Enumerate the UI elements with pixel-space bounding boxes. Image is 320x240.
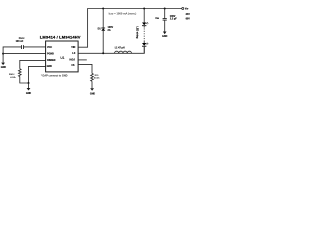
ground GND4 CIN bbox=[162, 32, 168, 39]
wire DIM/EN to RIADJ bbox=[20, 60, 46, 68]
wire D1 anode to LX wire bbox=[102, 31, 104, 54]
svg-text:4.02k: 4.02k bbox=[10, 76, 16, 79]
capacitor CIN bbox=[155, 15, 177, 21]
node D1 top bbox=[102, 8, 104, 10]
svg-text:PGND: PGND bbox=[47, 52, 54, 55]
inductor L1 bbox=[115, 46, 132, 53]
svg-text:CIN: CIN bbox=[155, 17, 159, 20]
node GND junction bbox=[28, 82, 30, 84]
svg-text:100 nF: 100 nF bbox=[16, 40, 24, 43]
wire LED string dashed continuation bbox=[143, 26, 145, 28]
wire RIADJ bottom to GND node bbox=[20, 77, 29, 84]
wire LX pin to inductor and LED return bbox=[78, 47, 144, 53]
svg-text:ILED = 1000 mA (nom.): ILED = 1000 mA (nom.) bbox=[109, 12, 137, 16]
diode D1 bbox=[98, 26, 114, 32]
ground GND2 bbox=[26, 83, 32, 95]
wire CVCC cap to left rail bbox=[3, 47, 21, 63]
wire D1 cathode to top rail bbox=[102, 9, 104, 28]
svg-text:VCC: VCC bbox=[47, 46, 52, 49]
resistor RFS bbox=[91, 73, 101, 81]
wire PGND pin bbox=[3, 53, 46, 55]
terminal VIN input bbox=[182, 8, 184, 10]
node LED string top bbox=[143, 8, 145, 10]
wire IADJ stub bbox=[78, 59, 87, 61]
svg-text:GND: GND bbox=[1, 66, 7, 69]
svg-text:* DAP connect to GND: * DAP connect to GND bbox=[41, 75, 68, 78]
svg-text:GND: GND bbox=[162, 35, 168, 38]
node CIN top bbox=[164, 8, 166, 10]
svg-text:LED string: LED string bbox=[136, 26, 139, 39]
LED D2 bbox=[142, 22, 148, 26]
svg-text:LX: LX bbox=[72, 52, 75, 55]
svg-text:RFS: RFS bbox=[95, 75, 100, 77]
LED string top wire bbox=[143, 9, 145, 23]
svg-text:DIM/EN: DIM/EN bbox=[47, 59, 56, 62]
wire VIN pin riser to top rail bbox=[78, 9, 182, 48]
svg-text:IADJ: IADJ bbox=[69, 58, 75, 61]
wire CIN top bbox=[164, 9, 166, 19]
svg-text:U1: U1 bbox=[60, 56, 64, 60]
svg-text:24V: 24V bbox=[186, 13, 191, 16]
ground GND1 bbox=[1, 63, 7, 70]
capacitor CVCC bbox=[22, 45, 24, 49]
wire FS pin to RFS bbox=[78, 64, 92, 73]
wire CIN bottom bbox=[164, 20, 166, 32]
svg-text:GND: GND bbox=[26, 92, 32, 95]
LED D3 bbox=[142, 43, 148, 47]
svg-text:40.2k: 40.2k bbox=[94, 77, 100, 80]
wire RFS to ground bbox=[91, 81, 93, 88]
node D1 bottom junction bbox=[102, 52, 104, 54]
wire LED cathode to corner bbox=[143, 46, 145, 53]
svg-text:LM3414 / LM3414HV: LM3414 / LM3414HV bbox=[40, 35, 81, 40]
svg-text:60V: 60V bbox=[186, 17, 191, 20]
svg-text:GND: GND bbox=[90, 92, 96, 95]
svg-text:FS: FS bbox=[71, 64, 74, 67]
svg-text:RIADJ: RIADJ bbox=[9, 73, 14, 76]
svg-text:2.2 µF: 2.2 µF bbox=[170, 18, 177, 21]
svg-text:L1 47 µH: L1 47 µH bbox=[115, 46, 125, 49]
svg-text:VIN: VIN bbox=[71, 46, 75, 49]
capacitor CVCC value label bbox=[16, 37, 26, 43]
wire VCC pin to CVCC cap bbox=[24, 46, 46, 48]
ground GND3 bbox=[90, 88, 96, 95]
resistor RIADJ bbox=[9, 69, 21, 79]
svg-text:VIN: VIN bbox=[185, 8, 189, 11]
svg-text:2A: 2A bbox=[108, 29, 111, 32]
svg-text:D1: D1 bbox=[98, 28, 102, 31]
op-amp U1 LM3414 IC box bbox=[46, 41, 79, 72]
wire GND pin bbox=[29, 66, 46, 83]
svg-text:GND: GND bbox=[47, 65, 53, 68]
node PGND/ground junction bbox=[2, 53, 4, 55]
